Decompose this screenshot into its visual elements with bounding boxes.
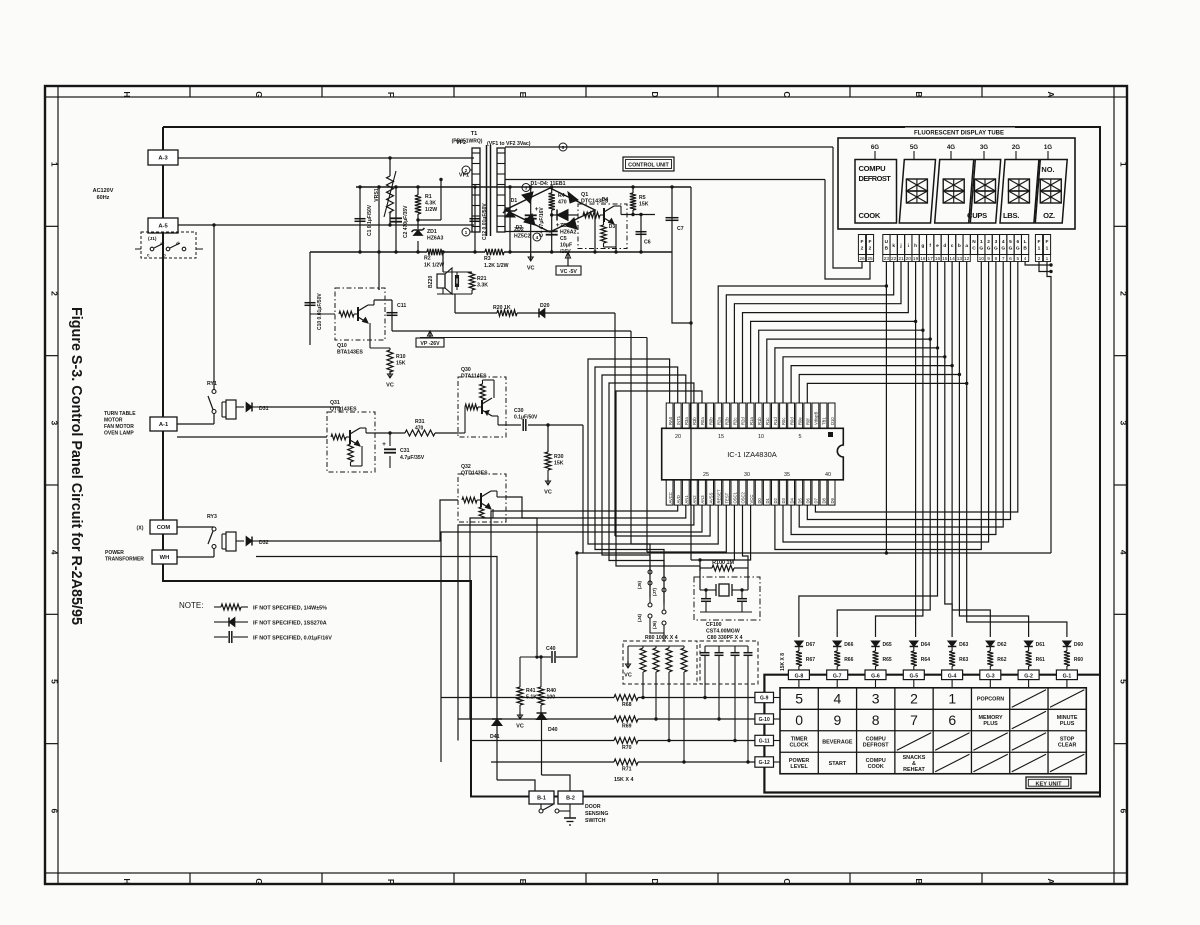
key strobe terminal G-6 — [865, 670, 886, 680]
wire ic pin AVD to key row R68 — [491, 505, 678, 697]
diode D64 — [910, 641, 918, 646]
svg-text:TIMER: TIMER — [791, 736, 808, 742]
resistor R63 — [951, 647, 953, 652]
svg-text:8: 8 — [872, 712, 880, 728]
capacitor C30 — [506, 424, 521, 426]
svg-text:R80 100K X 4: R80 100K X 4 — [645, 635, 678, 641]
svg-text:5: 5 — [1119, 679, 1129, 684]
svg-text:+: + — [382, 441, 386, 448]
display tube pin number 15 — [941, 255, 948, 262]
transformer pin circle 3 — [522, 184, 530, 192]
svg-text:OZ.: OZ. — [1043, 211, 1055, 220]
svg-text:T1: T1 — [471, 131, 478, 137]
wire RY1 coil to Q31 — [262, 406, 340, 408]
svg-text:k: k — [892, 243, 895, 249]
terminal B-1 — [529, 791, 554, 804]
display tube pin b — [956, 235, 963, 255]
bridge rectifier D1-D4 — [505, 188, 595, 232]
svg-text:ZD2: ZD2 — [514, 227, 524, 233]
svg-text:(J4): (J4) — [637, 613, 642, 622]
svg-text:15K: 15K — [396, 361, 406, 367]
wire display grid pin 1G to ic pin D2 — [775, 262, 981, 550]
svg-text:VC: VC — [624, 673, 632, 679]
key matrix grid — [780, 688, 1086, 774]
svg-text:F: F — [861, 239, 864, 245]
wire ic pin R0f to display pin a — [807, 262, 966, 404]
svg-text:C80 330PF X 4: C80 330PF X 4 — [707, 635, 743, 641]
svg-text:b: b — [958, 243, 961, 249]
diode D31 — [236, 406, 244, 408]
zener ZD1 — [417, 220, 419, 229]
frame tick top — [57, 86, 59, 97]
svg-text:VdispB: VdispB — [814, 412, 819, 425]
svg-text:A: A — [1046, 878, 1056, 884]
ic pin box bottom RESET — [715, 480, 722, 505]
resistor R1 — [417, 187, 419, 195]
ic pin box top R1a — [747, 403, 754, 428]
VC arrow below R30 — [547, 470, 549, 478]
svg-text:c: c — [951, 244, 954, 249]
wire R80-4 to key row — [683, 672, 685, 762]
resistor R5 — [632, 187, 634, 193]
ic pin box bottom D3 — [780, 480, 787, 505]
svg-text:6: 6 — [948, 712, 956, 728]
ic pin box top TB1 — [820, 403, 827, 428]
wire supply drop x647 — [646, 338, 648, 553]
svg-text:D61: D61 — [1036, 642, 1045, 648]
svg-text:R3b: R3b — [692, 417, 697, 425]
svg-text:D60: D60 — [1074, 642, 1083, 648]
display tube pin j — [897, 235, 904, 255]
svg-text:17: 17 — [928, 256, 934, 262]
display tube pin number 23 — [883, 255, 890, 262]
svg-text:23: 23 — [884, 256, 890, 262]
svg-text:Q10: Q10 — [337, 343, 347, 349]
transformer pin circle 4 — [533, 233, 541, 241]
svg-text:16: 16 — [935, 256, 941, 262]
svg-text:R62: R62 — [997, 657, 1006, 663]
ic pin box bottom D2 — [772, 480, 779, 505]
svg-text:20: 20 — [906, 256, 912, 262]
svg-text:R41: R41 — [526, 688, 536, 694]
svg-text:1: 1 — [1046, 246, 1049, 252]
svg-text:4: 4 — [1024, 256, 1027, 262]
key cell blank r4c6 — [973, 754, 1007, 771]
display tube pin F2 — [858, 235, 865, 255]
svg-text:R0c: R0c — [781, 418, 786, 425]
svg-text:DOOR: DOOR — [585, 804, 601, 810]
buzzer parallel capacitor — [455, 275, 457, 287]
svg-text:Q1: Q1 — [581, 192, 588, 198]
svg-text:R3: R3 — [484, 256, 491, 262]
ic pin box bottom AN1 — [682, 480, 689, 505]
wire ic pin R0a to jumper area — [616, 391, 702, 571]
capacitor C80-4 — [747, 646, 749, 653]
wire G-1 to key grid — [1066, 680, 1068, 688]
ic pin 1 mark — [828, 432, 833, 437]
display tube pin 4G — [1000, 235, 1007, 255]
frame tick bottom — [57, 873, 59, 884]
svg-text:R69: R69 — [622, 724, 632, 730]
wire ic pin R0d to display pin c — [791, 262, 952, 404]
wire ic OSC2 to crystal — [743, 505, 749, 568]
svg-text:C: C — [782, 878, 792, 884]
frame tick left — [45, 872, 58, 874]
svg-text:(J5): (J5) — [637, 580, 642, 589]
display tube pin F2 — [866, 235, 873, 255]
capacitor C2 electrolytic — [395, 187, 397, 252]
ic pin box bottom AVSS — [707, 480, 714, 505]
display tube pin number 4 — [1022, 255, 1029, 262]
svg-text:(VF1 to VF2 3Vac): (VF1 to VF2 3Vac) — [487, 141, 531, 147]
transformer T1 primary winding — [472, 148, 480, 232]
resistor R65 — [875, 647, 877, 652]
svg-text:LEVEL: LEVEL — [790, 764, 808, 770]
wire to D41 — [256, 557, 497, 720]
svg-text:R60: R60 — [1074, 657, 1083, 663]
display tube pin h — [912, 235, 919, 255]
wire ic pin AN1 to key row R69 — [470, 505, 686, 719]
wire key strobe to column G-2 — [959, 375, 1028, 638]
frame tick bottom — [585, 873, 587, 884]
wire ic pin R2a to display pin UB — [718, 262, 886, 404]
display tube pin F1 — [1035, 235, 1042, 255]
display tube pin number 10 — [978, 255, 985, 262]
wire rail end drop — [690, 187, 692, 560]
svg-text:ZD3: ZD3 — [560, 223, 570, 229]
svg-text:C31: C31 — [400, 448, 410, 454]
resistor R80-4 — [683, 646, 685, 648]
frame tick right — [1114, 613, 1127, 615]
ic pin box top R1b — [755, 403, 762, 428]
key cell blank r4c5 — [935, 754, 969, 771]
svg-text:D1: D1 — [765, 497, 770, 503]
wire display grid pin 2G to ic pin D3 — [783, 262, 989, 543]
wire UB bias line — [577, 552, 1051, 554]
ic pin box bottom AVD — [674, 480, 681, 505]
svg-text:B-1: B-1 — [537, 796, 546, 802]
boxed label VP -26V — [429, 331, 431, 338]
transformer pin circle 5 — [559, 143, 567, 151]
resistor R30 — [547, 425, 549, 452]
frame tick right — [1114, 225, 1127, 227]
svg-text:BEVERAGE: BEVERAGE — [822, 739, 853, 745]
crystal resonator CF100 — [699, 568, 701, 590]
terminal B-2 — [558, 791, 583, 804]
ic pin box top D10 — [828, 403, 835, 428]
svg-text:9: 9 — [987, 256, 990, 262]
display digit glyph 6 — [1040, 179, 1061, 191]
ic pin box top R0e — [796, 403, 803, 428]
svg-text:C7: C7 — [677, 226, 684, 232]
svg-text:KEY UNIT: KEY UNIT — [1035, 782, 1062, 788]
display tube pin 6G — [1014, 235, 1021, 255]
frame tick top — [849, 86, 851, 97]
svg-text:1K 1/2W: 1K 1/2W — [424, 263, 444, 269]
diode D66 — [833, 641, 841, 646]
resistor pack R80 top bus — [628, 645, 684, 647]
svg-text:D40: D40 — [548, 727, 558, 733]
wire key strobe to column G-5 — [915, 321, 917, 637]
resistor R10 — [369, 340, 371, 348]
wire VP line — [392, 330, 631, 332]
ic pin box top R0c — [780, 403, 787, 428]
svg-text:AVCC: AVCC — [668, 492, 673, 503]
wire key strobe to column G-8 — [799, 348, 938, 637]
display tube pin 3G — [992, 235, 999, 255]
wire Q1 collector output — [621, 214, 655, 216]
svg-text:D67: D67 — [806, 642, 815, 648]
svg-text:AVSS: AVSS — [708, 492, 713, 503]
svg-text:5: 5 — [795, 691, 803, 707]
display tube pin number 20 — [905, 255, 912, 262]
diode D62 — [986, 641, 994, 646]
frame tick left — [45, 96, 58, 98]
svg-text:POWER: POWER — [105, 550, 124, 556]
svg-text:C40: C40 — [546, 646, 556, 652]
ic pin box bottom TEST — [723, 480, 730, 505]
capacitor C80-3 — [734, 646, 736, 653]
wire supply x615 to ic pin — [615, 505, 710, 536]
display tube pin number 19 — [912, 255, 919, 262]
resistor R40 — [540, 657, 542, 687]
frame tick top — [585, 86, 587, 97]
svg-text:/16V: /16V — [560, 249, 571, 255]
svg-text:20: 20 — [675, 434, 681, 440]
svg-text:+: + — [556, 222, 560, 229]
svg-text:Q30: Q30 — [461, 367, 471, 373]
terminal A-1 — [150, 417, 177, 431]
transformer T1 secondary winding — [497, 148, 505, 232]
wire key strobe to column G-4 — [945, 357, 952, 637]
ic pin box bottom D1 — [763, 480, 770, 505]
svg-text:D: D — [650, 91, 660, 97]
svg-text:G-6: G-6 — [871, 673, 880, 679]
wire C80-3 to key row — [734, 655, 736, 740]
svg-text:2: 2 — [910, 691, 918, 707]
transistor Q31 box — [327, 412, 375, 472]
svg-text:R67: R67 — [806, 657, 815, 663]
svg-text:G-11: G-11 — [759, 739, 770, 745]
display tube pin number 7 — [1000, 255, 1007, 262]
svg-text:R10: R10 — [396, 354, 406, 360]
display digit box 4 — [970, 160, 1000, 224]
svg-text:E: E — [518, 879, 528, 885]
svg-text:h: h — [914, 243, 917, 249]
ic pin box top R3b — [691, 403, 698, 428]
display tube pin c — [949, 235, 956, 255]
svg-text:D9: D9 — [830, 497, 835, 503]
wire RY3 coil to Q32 — [262, 500, 458, 541]
wire key strobe to column G-3 — [952, 366, 990, 637]
svg-text:MOTOR: MOTOR — [104, 418, 123, 424]
wire supply x647 to ic pin — [647, 505, 726, 552]
ic pin box top R2d — [739, 403, 746, 428]
svg-text:D5: D5 — [797, 497, 802, 503]
crystal load capacitor right — [737, 598, 747, 600]
svg-text:1: 1 — [465, 230, 468, 236]
key strobe terminal G-7 — [827, 670, 848, 680]
diode D40 — [540, 705, 542, 713]
diode D32 — [236, 540, 244, 542]
display tube pin F1 — [1043, 235, 1050, 255]
svg-text:C11: C11 — [397, 303, 406, 309]
key strobe terminal G-4 — [942, 670, 963, 680]
key cell blank r4c8 — [1050, 754, 1084, 771]
svg-text:D0: D0 — [757, 497, 762, 503]
svg-text:OSC1: OSC1 — [733, 491, 738, 503]
display tube pin number 14 — [949, 255, 956, 262]
svg-text:BZ20: BZ20 — [428, 276, 434, 288]
resistor R21 — [469, 272, 475, 290]
svg-text:B: B — [1023, 246, 1027, 252]
frame tick right — [1114, 355, 1127, 357]
wire buzzer top bus — [443, 271, 472, 273]
frame tick left — [45, 484, 58, 486]
display tube pin number 9 — [985, 255, 992, 262]
svg-text:j: j — [899, 243, 901, 249]
svg-text:COOK: COOK — [859, 211, 881, 220]
wire ic pin R1b to display pin g — [759, 262, 923, 404]
svg-text:10: 10 — [758, 434, 764, 440]
resistor R69 row — [458, 718, 614, 720]
capacitor C4 electrolytic to VC — [530, 187, 532, 261]
wire G-7 to key grid — [836, 680, 838, 688]
ic pin box bottom D0 — [755, 480, 762, 505]
svg-text:3: 3 — [1119, 420, 1129, 425]
svg-text:R2a: R2a — [716, 417, 721, 425]
resistor R67 — [798, 647, 800, 652]
wire ic pin R0c to display pin d — [783, 262, 945, 404]
ic pin box bottom OSC2 — [739, 480, 746, 505]
frame tick bottom — [453, 873, 455, 884]
wire G-11 to key grid — [774, 740, 781, 742]
wire display grid pin 3G to ic pin D4 — [791, 262, 996, 535]
wire display grid pin 4G to ic pin D5 — [799, 262, 1003, 528]
svg-text:D1~D4: 11EB1: D1~D4: 11EB1 — [530, 181, 565, 187]
ground symbol door switch — [564, 817, 576, 819]
svg-text:18: 18 — [920, 256, 926, 262]
resistor R41 — [517, 687, 523, 705]
display tube pin number 22 — [890, 255, 897, 262]
svg-text:B-2: B-2 — [566, 796, 575, 802]
svg-text:AVD: AVD — [676, 495, 681, 503]
transistor Q30 box — [458, 377, 506, 437]
svg-text:STOP: STOP — [1060, 736, 1075, 742]
wire Q32 output — [506, 497, 537, 518]
svg-text:(X): (X) — [137, 526, 144, 532]
display digit box 5 — [1000, 160, 1039, 224]
wire main dc rail — [356, 186, 691, 188]
display tube pin number 21 — [897, 255, 904, 262]
svg-text:D3: D3 — [609, 224, 616, 230]
svg-text:R63: R63 — [959, 657, 968, 663]
svg-text:4.3K: 4.3K — [425, 201, 436, 207]
svg-text:D8: D8 — [822, 497, 827, 503]
wire transformer tap to bridge ac2 — [505, 231, 550, 233]
svg-text:G: G — [254, 878, 264, 885]
svg-text:R3a: R3a — [684, 417, 689, 425]
svg-text:QTD143ES: QTD143ES — [461, 471, 488, 477]
key cell blank r3c5 — [935, 733, 969, 750]
wire R31 to Q30 — [435, 432, 458, 434]
svg-text:25: 25 — [867, 256, 873, 262]
svg-text:4: 4 — [50, 550, 60, 555]
transformer pin circle 1 — [462, 228, 470, 236]
svg-text:6: 6 — [1009, 256, 1012, 262]
inner border frame — [58, 97, 1114, 873]
svg-text:5: 5 — [1009, 239, 1012, 245]
ic pin box top R3a — [682, 403, 689, 428]
svg-text:7: 7 — [910, 712, 918, 728]
wire ic pin R1c to display pin f — [767, 262, 930, 404]
svg-text:TRANSFORMER: TRANSFORMER — [105, 557, 144, 563]
zener ZD2 — [509, 187, 511, 252]
svg-text:1: 1 — [948, 691, 956, 707]
diode D65 — [871, 641, 879, 646]
display digit glyph 3 — [943, 179, 964, 191]
display tube pin d — [941, 235, 948, 255]
svg-text:F: F — [869, 239, 872, 245]
svg-text:CUPS: CUPS — [967, 211, 987, 220]
transistor Q1 — [583, 212, 600, 218]
svg-text:POWER: POWER — [789, 758, 809, 764]
frame tick top — [189, 86, 191, 97]
svg-text:D20: D20 — [540, 303, 550, 309]
svg-text:B: B — [914, 878, 924, 884]
svg-text:HZ6A3: HZ6A3 — [427, 236, 444, 242]
svg-text:1: 1 — [1119, 162, 1129, 167]
crystal load capacitor left — [701, 598, 711, 600]
wire rail drop to ic VCC — [691, 505, 751, 560]
transistor Q30 — [458, 432, 465, 434]
svg-text:5G: 5G — [910, 144, 918, 151]
svg-text:G: G — [987, 246, 991, 252]
svg-text:13: 13 — [957, 256, 963, 262]
svg-text:D1: D1 — [511, 198, 518, 204]
wire Q10 feed from rail — [378, 288, 380, 290]
svg-text:B: B — [885, 246, 889, 252]
frame tick top — [321, 86, 323, 97]
ic pin box bottom D8 — [820, 480, 827, 505]
key strobe terminal G-2 — [1018, 670, 1039, 680]
wire D41 to B-1 — [497, 780, 535, 791]
svg-text:DEFROST: DEFROST — [863, 743, 889, 749]
svg-text:60Hz: 60Hz — [97, 195, 110, 201]
key cell blank r1c7 — [1012, 690, 1046, 707]
svg-text:C1 0.1μF/50V: C1 0.1μF/50V — [367, 204, 373, 236]
svg-text:+: + — [388, 210, 392, 217]
wire ic pin R0e to display pin b — [799, 262, 959, 404]
frame tick right — [1114, 96, 1127, 98]
wire ic pin INT1 to jumper area — [595, 367, 678, 567]
svg-text:COOK: COOK — [868, 764, 884, 770]
resistor R71 row — [491, 761, 614, 763]
svg-text:A-1: A-1 — [159, 422, 169, 428]
wire display pin F1 a — [1039, 262, 1051, 272]
display tube pin 1G — [978, 235, 985, 255]
svg-text:CST4.00MGW: CST4.00MGW — [706, 629, 740, 635]
svg-text:R0d: R0d — [789, 417, 794, 425]
svg-text:&: & — [912, 761, 916, 767]
svg-text:VCC: VCC — [749, 495, 754, 504]
svg-text:D64: D64 — [921, 642, 930, 648]
key strobe terminal G-5 — [903, 670, 924, 680]
capacitor C5 electrolytic — [551, 215, 553, 252]
frame tick left — [45, 355, 58, 357]
transistor Q10 box — [335, 288, 385, 340]
wire R80-3 to key row — [668, 672, 670, 741]
